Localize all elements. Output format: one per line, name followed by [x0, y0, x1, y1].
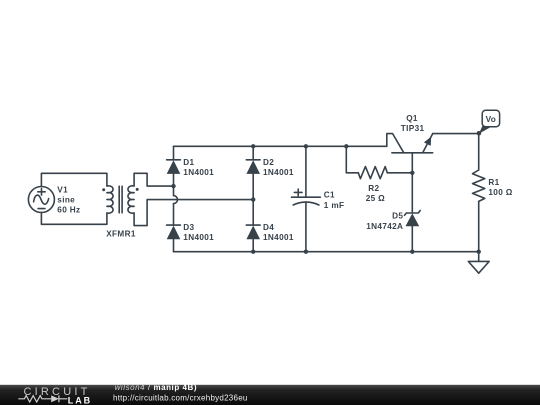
- wire left branch upper: [173, 146, 175, 195]
- diode D3: [167, 225, 181, 239]
- svg-text:1N4001: 1N4001: [263, 168, 294, 177]
- label R1 100 ohm: [488, 178, 512, 197]
- node junction at D1 branch: [171, 184, 175, 188]
- node top rail D2: [251, 144, 255, 148]
- svg-text:D2: D2: [263, 158, 274, 167]
- resistor R2: [358, 167, 387, 179]
- svg-text:V1: V1: [57, 185, 68, 194]
- wire D2 branch: [252, 146, 254, 251]
- svg-text:Q1: Q1: [406, 114, 418, 123]
- transformer XFMR1: [102, 186, 139, 213]
- resistor R1: [473, 170, 485, 201]
- label D1 1N4001: [183, 158, 214, 177]
- svg-text:1N4742A: 1N4742A: [366, 222, 403, 231]
- node bottom rail D5: [410, 250, 414, 254]
- svg-text:XFMR1: XFMR1: [106, 229, 136, 238]
- logo CIRCUIT: [24, 386, 91, 398]
- svg-text:sine: sine: [57, 195, 75, 204]
- wire base to zener: [411, 173, 413, 213]
- label Q1 TIP31: [401, 114, 425, 133]
- svg-text:Vo: Vo: [486, 115, 497, 124]
- logo squiggle resistor diode: [18, 395, 67, 402]
- wire V1 bottom to primary: [41, 213, 107, 225]
- svg-text:D4: D4: [263, 223, 274, 232]
- wire R2 branch: [346, 146, 358, 173]
- svg-text:D5: D5: [392, 212, 403, 221]
- wire secondary bottom lead: [134, 200, 253, 226]
- svg-text:R1: R1: [488, 178, 499, 187]
- label D4 1N4001: [263, 223, 294, 242]
- svg-text:25 Ω: 25 Ω: [366, 194, 385, 203]
- svg-text:1N4001: 1N4001: [183, 168, 214, 177]
- wire V1 top to primary: [41, 173, 107, 186]
- svg-text:TIP31: TIP31: [401, 124, 425, 133]
- wire emitter to Vo: [433, 133, 479, 135]
- diode D1: [167, 160, 181, 174]
- transistor Q1: [387, 134, 433, 173]
- footer title text: [113, 383, 248, 403]
- footer bar: [0, 385, 540, 405]
- svg-text:60 Hz: 60 Hz: [57, 205, 80, 214]
- svg-text:R2: R2: [368, 184, 379, 193]
- wire secondary top lead: [134, 173, 173, 186]
- svg-text:C1: C1: [324, 190, 335, 199]
- capacitor C1: [292, 146, 321, 251]
- node base junction: [410, 171, 414, 175]
- diode D2: [246, 160, 260, 174]
- label XFMR1: [106, 229, 136, 238]
- wire bottom rail: [174, 251, 479, 253]
- label D5 1N4742A: [366, 212, 403, 231]
- svg-text:http://circuitlab.com/crxehbyd: http://circuitlab.com/crxehbyd236eu: [113, 393, 248, 402]
- node ground: [477, 250, 481, 254]
- wire R1 to bottom rail: [478, 201, 480, 251]
- svg-text:1 mF: 1 mF: [324, 201, 345, 210]
- flag Vo: [479, 110, 500, 134]
- zener diode D5: [405, 211, 421, 252]
- svg-text:D3: D3: [183, 223, 194, 232]
- node top rail R2: [344, 144, 348, 148]
- label D3 1N4001: [183, 223, 214, 242]
- svg-text:wilson4 / manip 4B): wilson4 / manip 4B): [115, 383, 197, 392]
- svg-text:LAB: LAB: [68, 395, 92, 405]
- wire top rail: [174, 145, 387, 147]
- label D2 1N4001: [263, 158, 294, 177]
- wire R2 to base node: [387, 172, 412, 174]
- label C1 1 mF: [324, 190, 345, 210]
- label V1 sine 60 Hz: [57, 185, 80, 214]
- ground: [468, 252, 489, 274]
- node top rail C1: [304, 144, 308, 148]
- node bottom rail C1: [304, 250, 308, 254]
- svg-text:1N4001: 1N4001: [263, 233, 294, 242]
- svg-text:1N4001: 1N4001: [183, 233, 214, 242]
- label R2 25 ohm: [366, 184, 385, 203]
- node bottom rail D4: [251, 250, 255, 254]
- voltage source V1: [28, 187, 54, 213]
- diode D4: [246, 225, 260, 239]
- node Vo: [477, 131, 482, 136]
- logo LAB: [68, 395, 92, 405]
- svg-text:100 Ω: 100 Ω: [488, 188, 512, 197]
- node mid D2 branch: [251, 197, 255, 201]
- svg-text:D1: D1: [183, 158, 194, 167]
- wire left branch lower: [173, 204, 175, 252]
- wire hop over secondary lead: [174, 196, 178, 204]
- wire Vo to R1: [478, 133, 480, 170]
